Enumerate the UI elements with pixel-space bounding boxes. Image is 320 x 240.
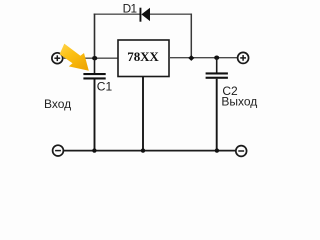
node junction top of C2 xyxy=(214,56,219,60)
wire regulator ground pin xyxy=(142,77,144,151)
node junction C2 to rail xyxy=(215,148,219,152)
terminal input - xyxy=(53,145,64,156)
svg-text:Выход: Выход xyxy=(221,95,257,109)
node junction top of C1 xyxy=(92,56,97,60)
wire input + to regulator input pin xyxy=(63,57,118,59)
wire regulator output pin to terminal output + xyxy=(169,57,238,59)
terminal output + xyxy=(238,52,249,63)
node junction diode output (diamond) xyxy=(188,55,194,61)
wire top left (node IN to diode D1 anode side) xyxy=(94,13,140,15)
node junction ground pin to rail xyxy=(141,148,145,152)
terminal input + xyxy=(52,53,63,64)
regulator U1 78XX xyxy=(118,40,169,77)
capacitor C1 xyxy=(83,58,105,150)
highlight arrow pointing at C1 xyxy=(60,44,89,71)
wire right vertical of protection loop xyxy=(190,14,192,58)
wire left vertical of protection loop xyxy=(94,14,96,59)
svg-text:D1: D1 xyxy=(123,1,137,15)
svg-text:Вход: Вход xyxy=(44,97,71,111)
diode D1 xyxy=(140,8,151,22)
terminal output - xyxy=(236,146,247,157)
wire bottom rail (common negative) xyxy=(64,150,236,152)
capacitor C2 xyxy=(206,58,228,151)
svg-text:78XX: 78XX xyxy=(127,49,159,64)
svg-text:C1: C1 xyxy=(97,80,113,94)
wire top right (diode D1 cathode side to node OUT) xyxy=(150,13,192,15)
node junction C1 to rail xyxy=(92,148,96,152)
